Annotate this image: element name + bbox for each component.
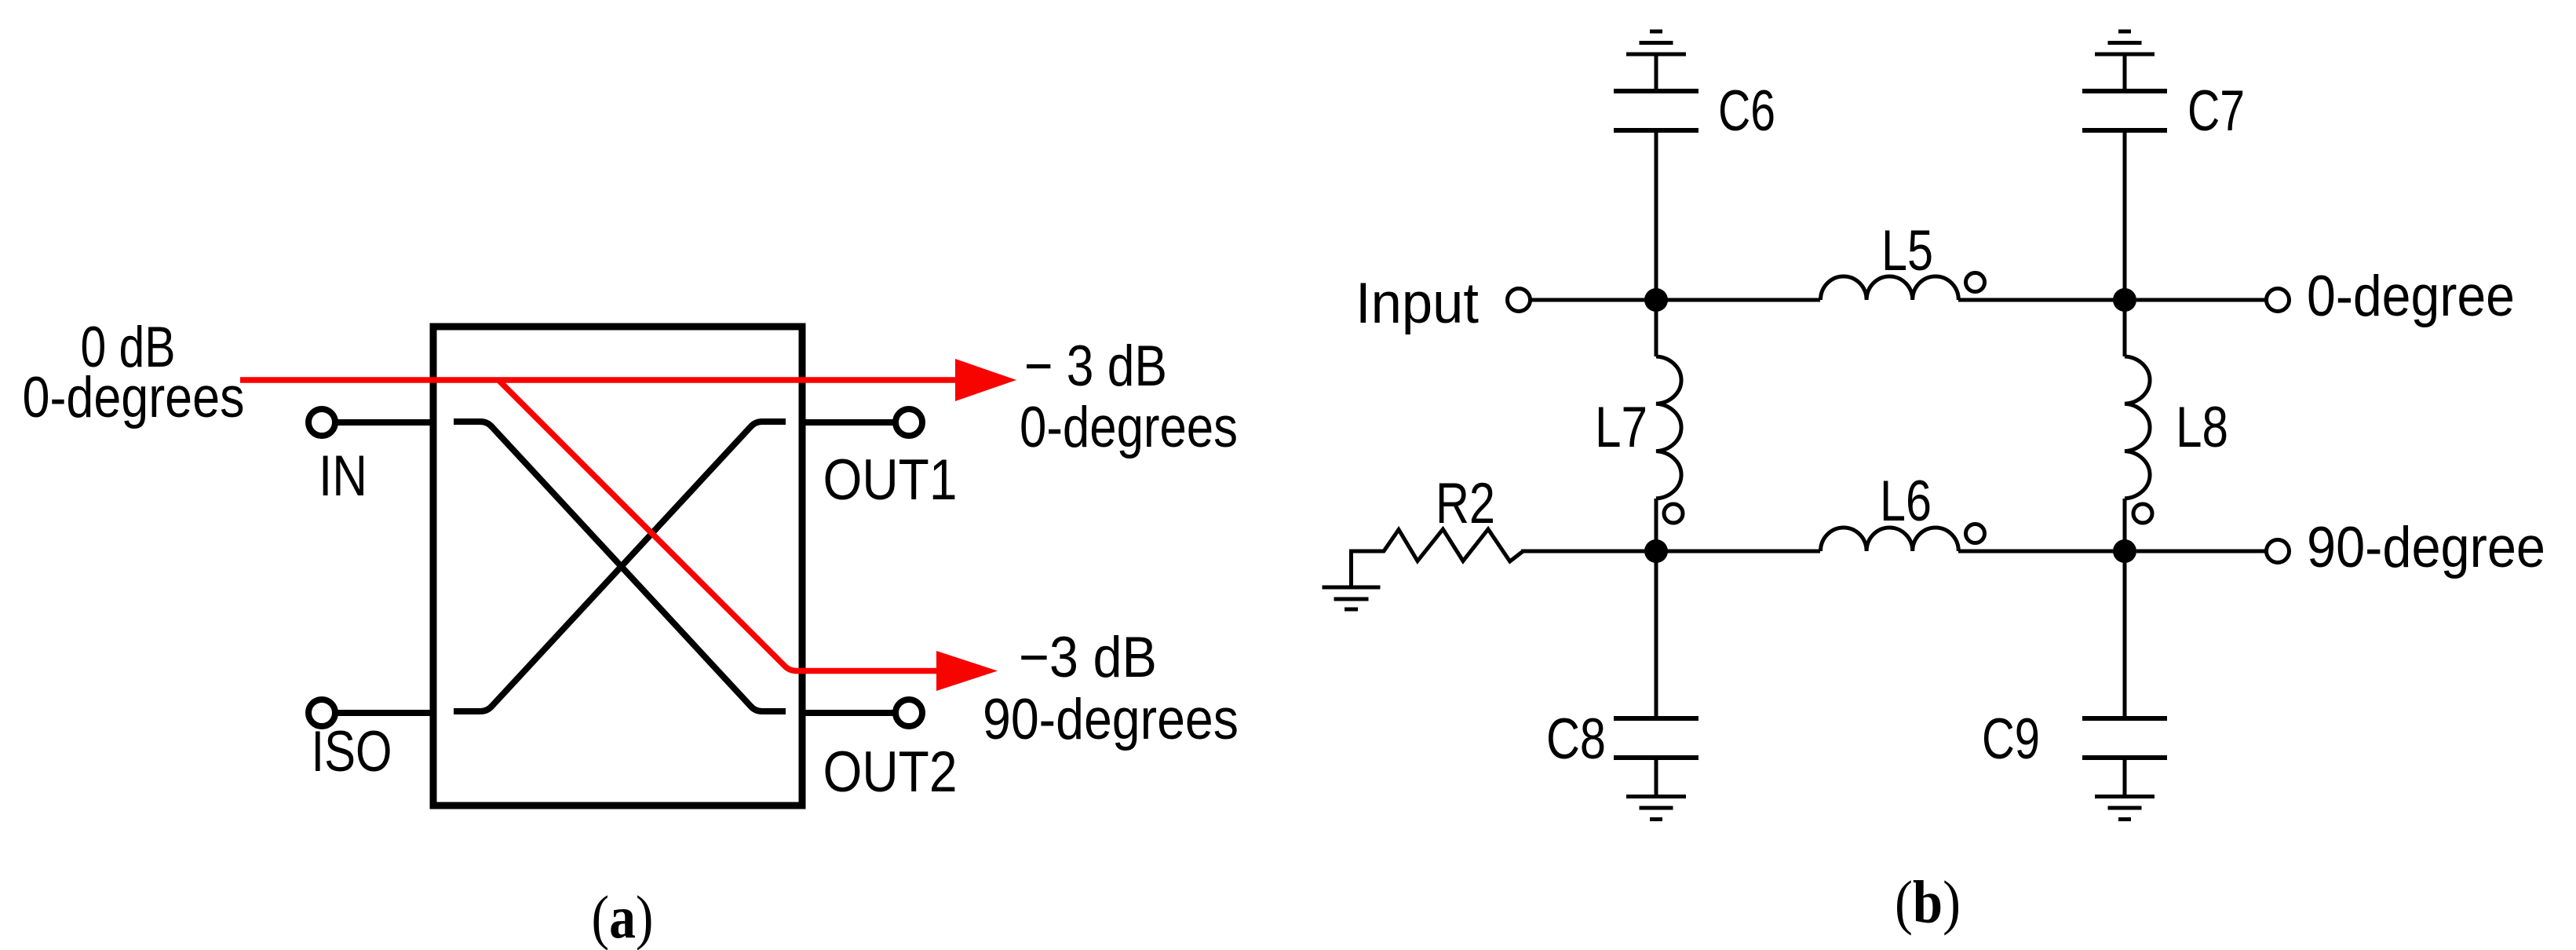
svg-text:C9: C9: [1982, 707, 2040, 771]
svg-text:C7: C7: [2187, 79, 2245, 143]
svg-text:OUT1: OUT1: [823, 448, 958, 512]
svg-text:ISO: ISO: [312, 720, 392, 784]
svg-text:OUT2: OUT2: [823, 740, 958, 804]
svg-text:90-degrees: 90-degrees: [983, 688, 1239, 751]
svg-text:−3 dB: −3 dB: [1019, 626, 1157, 689]
svg-text:L5: L5: [1881, 219, 1933, 283]
svg-text:0-degree: 0-degree: [2307, 265, 2515, 328]
svg-text:L6: L6: [1880, 470, 1932, 533]
svg-text:IN: IN: [319, 444, 367, 508]
svg-text:Input: Input: [1356, 272, 1479, 335]
svg-text:90-degree: 90-degree: [2307, 516, 2545, 579]
svg-text:L7: L7: [1595, 396, 1647, 459]
svg-text:0-degrees: 0-degrees: [1020, 396, 1238, 459]
svg-text:(b): (b): [1895, 868, 1961, 936]
svg-text:C6: C6: [1718, 79, 1775, 143]
svg-text:0-degrees: 0-degrees: [23, 366, 245, 429]
svg-text:− 3 dB: − 3 dB: [1024, 334, 1167, 398]
svg-text:(a): (a): [592, 883, 654, 950]
svg-text:C8: C8: [1546, 707, 1606, 771]
svg-text:L8: L8: [2176, 396, 2228, 459]
svg-text:R2: R2: [1436, 472, 1495, 535]
